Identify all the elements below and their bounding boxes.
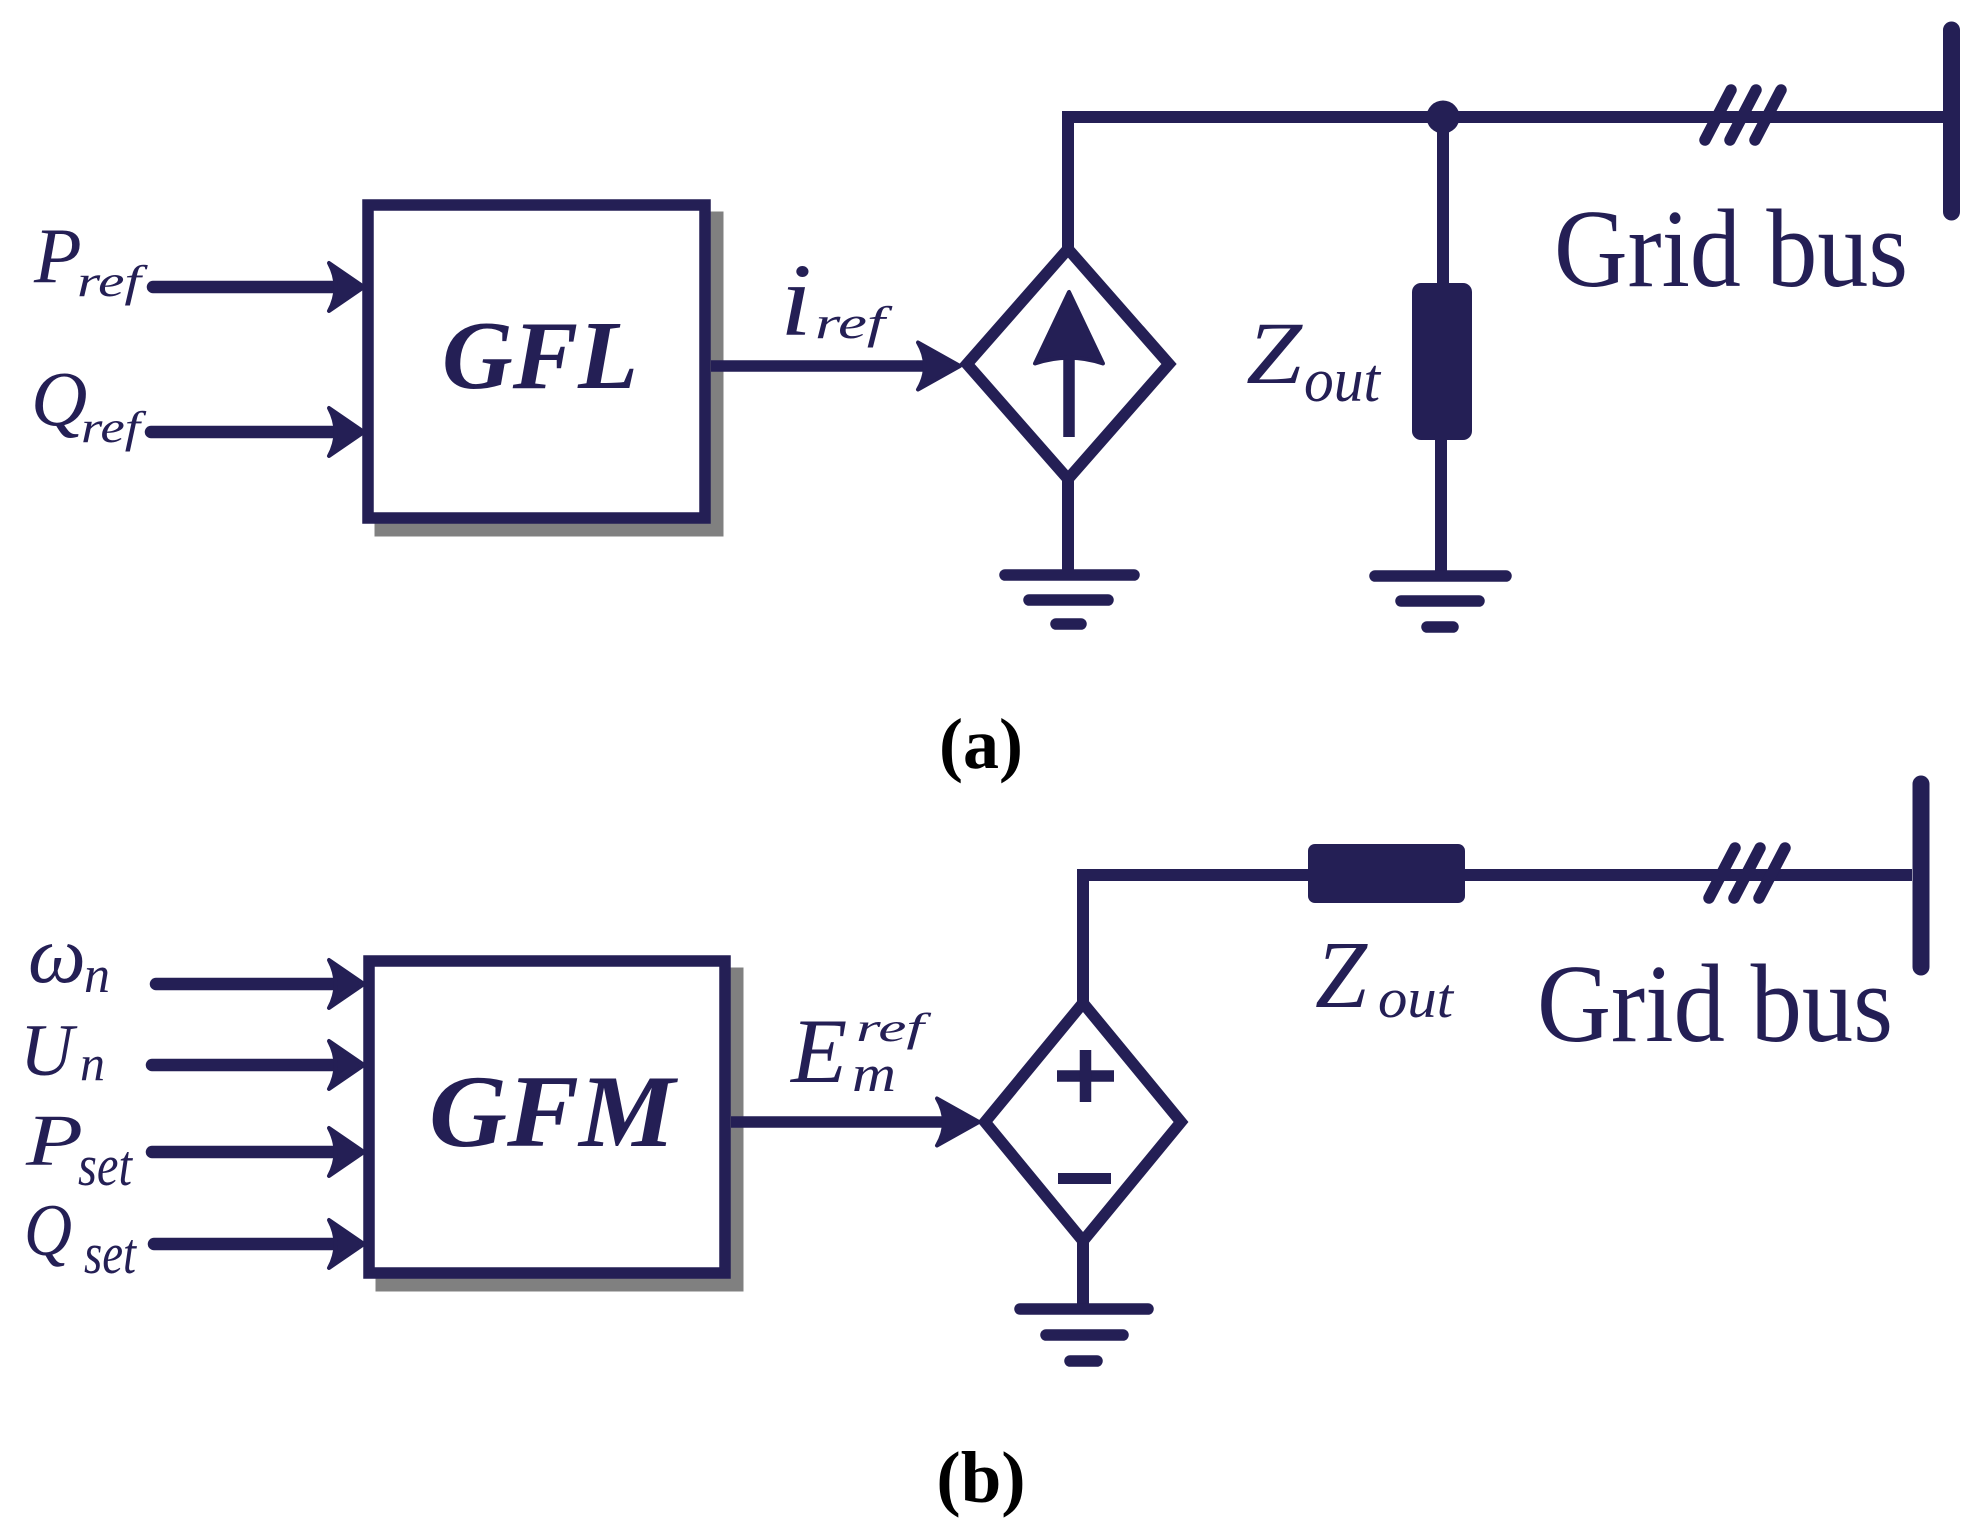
svg-text:Grid bus: Grid bus [1537,943,1893,1066]
svg-text:GFL: GFL [442,302,638,409]
svg-text:E: E [789,1000,847,1102]
svg-text:U: U [20,1010,78,1092]
label Zout (a) [1246,305,1382,415]
grid bus bar (a) [1943,30,1960,212]
block GFM shadow [376,968,744,1292]
ground under Zout (a) [1375,576,1506,627]
arrowhead Pset [329,1128,364,1176]
wire Em output [731,1116,944,1128]
grid bus bar (b) [1913,784,1930,967]
svg-text:set: set [78,1133,134,1198]
block GFL shadow [375,212,724,537]
breaker slashes (b) [1709,848,1785,898]
ground under current source (a) [1005,575,1134,624]
svg-text:P: P [33,212,82,299]
arrowhead Qset [329,1220,364,1268]
label omega_n [28,909,110,1004]
voltage source V1 diamond [985,1003,1181,1241]
wire diamond top to grid bus (a) [1068,117,1943,253]
svg-text:out: out [1304,347,1382,415]
svg-text:i: i [780,243,812,358]
svg-text:(a): (a) [939,704,1023,784]
impedance Zout (b) body [1308,844,1465,903]
svg-text:GFM: GFM [429,1055,679,1169]
arrowhead Pref [329,263,364,311]
label Pset [25,1100,134,1198]
svg-text:ω: ω [28,909,86,1000]
wire Qref input [151,426,340,439]
node junction dot (a) [1427,101,1460,134]
arrowhead Qref [329,408,364,456]
impedance Zout (a) body [1412,283,1472,440]
svg-text:(b): (b) [936,1437,1025,1518]
svg-text:P: P [25,1100,83,1181]
label Pref [33,212,149,306]
arrowhead omega [329,960,364,1008]
wire diamond top to Zout (b) and grid bus [1083,875,1912,1007]
wire Zout (a) to ground [1435,440,1447,572]
label Qset [24,1190,138,1286]
block GFM [369,961,725,1273]
svg-text:ref: ref [81,403,147,452]
svg-text:ref: ref [77,257,149,306]
label Zout (b) [1315,921,1455,1030]
svg-text:Z: Z [1246,305,1304,403]
ground under voltage source (b) [1020,1309,1148,1361]
current source I1 arrow [1035,292,1103,437]
label Un [20,1010,105,1092]
label iref [780,243,894,358]
arrowhead iref [918,343,960,390]
voltage source plus sign [1057,1050,1114,1102]
wire diamond bottom to ground (a) [1062,475,1074,572]
wire iref output [711,360,926,372]
wire Pset input [152,1146,340,1159]
block GFL [368,205,705,518]
wire omega input [156,978,340,991]
label Em_ref output [789,1000,932,1103]
svg-text:n: n [80,1035,105,1091]
wire Pref input [153,281,340,294]
svg-text:m: m [852,1046,896,1103]
wire node to Zout (a) [1437,117,1449,288]
label Qref [31,355,147,452]
svg-text:Z: Z [1315,921,1369,1028]
svg-text:out: out [1378,968,1455,1030]
wire Qset input [154,1238,340,1251]
arrowhead Un [329,1041,364,1089]
svg-text:ref: ref [856,1005,932,1050]
breaker slashes (a) [1705,90,1781,140]
svg-text:Q: Q [24,1190,72,1272]
svg-text:set: set [84,1221,138,1286]
svg-text:Grid bus: Grid bus [1554,188,1908,311]
current source I1 diamond [967,249,1169,479]
svg-text:ref: ref [815,297,894,348]
wire Un input [152,1059,340,1072]
arrowhead Em [937,1099,979,1146]
svg-text:n: n [84,947,110,1004]
voltage source minus sign [1058,1173,1111,1184]
svg-text:Q: Q [31,355,87,442]
wire diamond bottom to ground (b) [1077,1237,1089,1305]
